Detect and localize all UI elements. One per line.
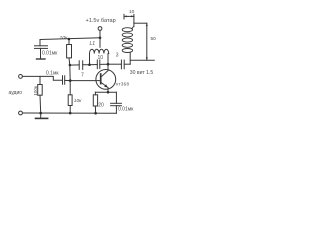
svg-text:0.1мк: 0.1мк <box>46 70 59 76</box>
svg-text:20: 20 <box>98 103 104 109</box>
svg-text:0.01мк: 0.01мк <box>118 106 134 112</box>
svg-text:100к: 100к <box>33 85 38 96</box>
svg-text:7: 7 <box>81 73 84 79</box>
svg-text:0.01мк: 0.01мк <box>42 50 58 56</box>
svg-text:кт368: кт368 <box>116 81 129 86</box>
svg-text:аудио: аудио <box>9 90 23 96</box>
svg-text:10: 10 <box>129 9 135 15</box>
svg-text:50: 50 <box>151 36 157 42</box>
svg-text:10к: 10к <box>60 35 68 41</box>
svg-text:10к: 10к <box>74 98 82 104</box>
svg-text:30 вит 1.5: 30 вит 1.5 <box>130 70 154 76</box>
svg-text:+1.5v батар: +1.5v батар <box>86 18 116 24</box>
svg-text:L1: L1 <box>90 41 96 47</box>
svg-text:10: 10 <box>98 55 104 61</box>
svg-text:3: 3 <box>116 53 119 59</box>
